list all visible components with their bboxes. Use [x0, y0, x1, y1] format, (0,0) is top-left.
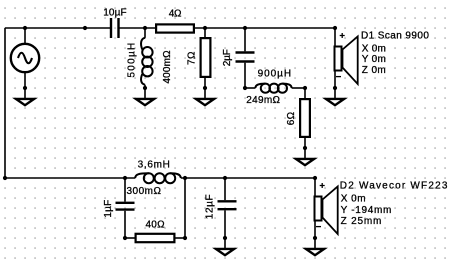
wire: 900uH right lead — [292, 87, 305, 89]
wire: speaker D1 vertical feed — [334, 28, 336, 98]
AC source V1 circle — [11, 44, 39, 72]
svg-text:6Ω: 6Ω — [286, 111, 297, 125]
svg-text:40Ω: 40Ω — [145, 220, 165, 231]
wire: 12uF top stub — [224, 178, 226, 200]
wire: 6 Ohm top stub — [304, 88, 306, 99]
AC source V1 sine wave — [18, 53, 32, 64]
resistor R3 6 Ohm — [300, 99, 310, 137]
wire: 2uF top stub — [244, 28, 246, 51]
wire: 900uH left lead — [245, 87, 255, 89]
speaker D1 minus sign — [336, 76, 341, 78]
wire: bottom rail right segment (3.6mH lead to speaker D2 corner) — [181, 177, 315, 179]
svg-text:300mΩ: 300mΩ — [127, 186, 162, 197]
node: 12uF branch junction — [223, 176, 227, 180]
inductor L1 500uH coil — [141, 38, 153, 85]
wire: 6 Ohm bottom stub — [304, 137, 306, 158]
speaker D1 driver rectangle — [335, 47, 342, 71]
wire: 12uF bottom stub — [224, 210, 226, 248]
wire: 7 Ohm top stub — [204, 28, 206, 38]
wire: 40 Ohm left lead — [125, 237, 136, 239]
wire: 1uF bottom stub — [124, 211, 126, 238]
wire: 500uH bottom stub — [144, 85, 146, 98]
speaker D1 plus sign — [340, 33, 345, 38]
node: 1uF / 40 Ohm junction — [123, 236, 127, 240]
svg-text:D1 Scan 9900: D1 Scan 9900 — [361, 31, 429, 42]
capacitor C4 12uF plates — [218, 201, 237, 209]
ground (source) — [16, 99, 34, 105]
node: 3.6mH right junction — [183, 176, 187, 180]
node: source top junction — [23, 26, 27, 30]
wire: top rail right segment (10uF right plate to speaker D1 corner) — [120, 27, 336, 29]
node: 10uF / 500uH junction — [143, 26, 147, 30]
node: speaker D1 bottom junction — [333, 86, 337, 90]
node: top rail segment joint — [83, 26, 87, 30]
node: speaker D1 top corner junction — [333, 26, 337, 30]
wire: top rail left segment (source node to 10uF left plate) — [5, 27, 110, 29]
svg-text:X 0m: X 0m — [362, 43, 386, 54]
ground (12uF) — [216, 249, 234, 255]
wire: left vertical rail — [4, 28, 6, 178]
node: 7 Ohm bottom junction — [203, 86, 207, 90]
node: speaker D2 bottom junction — [313, 236, 317, 240]
speaker D2 driver rectangle — [315, 197, 322, 221]
svg-text:249mΩ: 249mΩ — [246, 95, 280, 106]
svg-text:3,6mH: 3,6mH — [138, 160, 171, 171]
svg-text:400mΩ: 400mΩ — [162, 50, 173, 84]
speaker D2 minus sign — [316, 226, 321, 228]
wire: bottom rail left segment (rail corner to 3.6mH lead) — [5, 177, 135, 179]
svg-text:10µF: 10µF — [103, 7, 127, 18]
node: bottom rail corner junction — [3, 176, 7, 180]
ground (500uH) — [136, 99, 154, 105]
wire: riser from 40 Ohm up to bottom rail — [184, 178, 186, 238]
svg-text:Z 25mm: Z 25mm — [341, 216, 383, 227]
svg-text:X 0m: X 0m — [341, 193, 366, 204]
resistor R2 7 Ohm — [201, 38, 211, 77]
svg-text:Y 0m: Y 0m — [362, 54, 386, 65]
inductor L2 900uH coil — [255, 84, 291, 93]
capacitor C3 1uF plates — [116, 203, 135, 210]
svg-text:1µF: 1µF — [103, 200, 114, 218]
wire: 500uH top stub — [144, 28, 146, 38]
node: 2uF / 900uH junction — [243, 86, 247, 90]
node: 40 Ohm / riser junction — [183, 236, 187, 240]
node: 900uH / 6 Ohm junction — [303, 86, 307, 90]
svg-text:12µF: 12µF — [205, 194, 216, 219]
wire: source bottom stub — [24, 72, 26, 98]
speaker D2 plus sign — [320, 183, 325, 188]
node: 500uH bottom junction — [143, 86, 147, 90]
ground (speaker D1) — [326, 99, 344, 105]
speaker D1 cone — [343, 37, 358, 85]
wire: 7 Ohm bottom stub — [204, 77, 206, 98]
wire: 1uF top stub — [124, 178, 126, 202]
svg-text:7Ω: 7Ω — [186, 51, 197, 65]
resistor R1 4 Ohm — [156, 24, 194, 32]
inductor L3 3.6mH coil — [135, 173, 181, 183]
node: 4 Ohm / 7 Ohm junction — [203, 26, 207, 30]
resistor R4 40 Ohm — [136, 234, 175, 242]
svg-text:D2 Wavecor WF223: D2 Wavecor WF223 — [340, 180, 449, 191]
capacitor C1 10uF plates — [111, 18, 119, 38]
ground (speaker D2) — [306, 249, 324, 255]
svg-text:2µF: 2µF — [222, 49, 233, 66]
ground (6 Ohm) — [296, 159, 314, 165]
node: 12uF bottom junction — [223, 236, 227, 240]
wire: 2uF bottom stub down to 900uH row — [244, 63, 246, 88]
speaker D2 cone — [323, 187, 338, 235]
node: source bottom junction — [23, 86, 27, 90]
wire: source top stub — [24, 28, 26, 44]
svg-text:Z 0m: Z 0m — [362, 65, 386, 76]
svg-text:500µH: 500µH — [127, 41, 138, 77]
svg-text:Y -194mm: Y -194mm — [341, 205, 392, 216]
wire: speaker D2 vertical feed — [314, 178, 316, 248]
wire: 40 Ohm right lead — [175, 237, 186, 239]
svg-text:900µH: 900µH — [258, 69, 292, 80]
capacitor C2 2uF plates — [236, 53, 255, 62]
node: speaker D2 top corner junction — [313, 176, 317, 180]
svg-text:4Ω: 4Ω — [169, 8, 182, 19]
ground (7 Ohm) — [196, 99, 214, 105]
node: 6 Ohm bottom junction — [303, 146, 307, 150]
node: 2uF branch junction — [243, 26, 247, 30]
node: 3.6mH left junction — [123, 176, 127, 180]
